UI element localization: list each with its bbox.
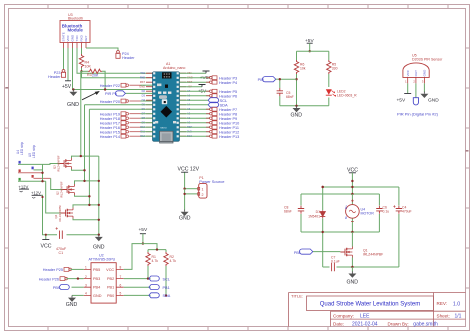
svg-text:IRLZ44NPBF: IRLZ44NPBF — [58, 205, 62, 222]
connector U4 pin label G — [19, 178, 21, 181]
svg-text:REV:: REV: — [437, 301, 448, 306]
svg-text:7: 7 — [120, 275, 122, 279]
svg-text:VCC: VCC — [41, 244, 52, 250]
connector U5 pin label B — [32, 167, 34, 170]
svg-text:Header: Header — [48, 75, 61, 79]
ground symbol motor — [348, 271, 356, 278]
diode D1 — [320, 210, 325, 218]
wire PB0 to SDA flag — [124, 294, 151, 296]
svg-text:PB0: PB0 — [107, 294, 114, 298]
wire U4 row R — [18, 172, 43, 174]
svg-text:GND: GND — [93, 294, 102, 298]
wire to P1 pin1 — [185, 188, 198, 190]
svg-text:M-: M- — [344, 216, 348, 219]
wire PB1 to Q1 gate — [313, 251, 340, 253]
svg-text:M+: M+ — [344, 205, 348, 209]
net flag SCL — [149, 276, 159, 281]
svg-text:R3: R3 — [87, 73, 92, 77]
junction R4/R3 — [80, 70, 82, 72]
net flag PB1 motor — [299, 249, 312, 254]
Q1 drain/source leads — [351, 258, 353, 268]
svg-text:Header P15: Header P15 — [100, 131, 120, 135]
wire U5 row B — [34, 169, 43, 171]
wire header P22 — [129, 84, 140, 86]
svg-text:Header P18: Header P18 — [100, 117, 120, 121]
header P25 — [64, 268, 71, 272]
header P11 — [180, 126, 210, 128]
svg-text:Company:: Company: — [333, 314, 354, 319]
svg-text:68nF: 68nF — [286, 95, 294, 99]
wire arduino D5 to Q2 column — [85, 105, 153, 181]
svg-text:IRLZ44NPBF: IRLZ44NPBF — [56, 155, 60, 172]
header P20 — [121, 99, 128, 103]
VCC 12V flag bar — [184, 172, 186, 189]
svg-text:PIR Pin (Digital Pin #2): PIR Pin (Digital Pin #2) — [397, 112, 439, 117]
svg-text:nano: nano — [160, 126, 167, 130]
wire PIR flag to arduino — [125, 92, 152, 94]
svg-text:GND: GND — [93, 245, 105, 251]
svg-text:4.7k: 4.7k — [152, 259, 159, 263]
wire arduino D6 to Q4 column — [89, 109, 152, 205]
header P13 — [180, 135, 210, 137]
wire motor top rail — [301, 187, 399, 194]
connector P1 body — [199, 183, 207, 198]
svg-text:Header P7: Header P7 — [219, 108, 237, 112]
svg-text:LED strip: LED strip — [20, 142, 24, 155]
svg-text:PB1: PB1 — [107, 286, 114, 290]
header P6 — [180, 95, 210, 97]
wire left branch — [296, 51, 298, 106]
svg-text:VCC: VCC — [406, 69, 410, 76]
svg-text:PB1: PB1 — [294, 251, 301, 255]
wire KEY pin to P24 header — [86, 48, 118, 51]
transistor Q4 — [61, 208, 73, 219]
VCC power flag — [45, 235, 47, 240]
svg-text:D203S PIR Sensor: D203S PIR Sensor — [412, 57, 443, 61]
U2 pin stubs right — [116, 269, 124, 295]
svg-text:2021-02-04: 2021-02-04 — [352, 322, 378, 328]
svg-text:TXD: TXD — [75, 35, 79, 42]
wire U4 row B — [18, 163, 43, 165]
PIR pin stubs — [408, 77, 425, 83]
svg-text:Date:: Date: — [333, 322, 344, 327]
header P7 — [180, 108, 210, 110]
svg-text:GND: GND — [291, 113, 303, 119]
junction rail/bus — [98, 234, 100, 236]
junction R3 drop on rail — [104, 88, 106, 90]
wire PB1 to flag — [124, 286, 151, 288]
header P10 — [180, 122, 210, 124]
svg-text:+12V: +12V — [18, 184, 28, 189]
wire right branch — [328, 51, 330, 106]
svg-text:IRLZ44NPBF: IRLZ44NPBF — [59, 181, 63, 198]
svg-text:Header P14: Header P14 — [100, 135, 120, 139]
wire R2 bottom to SDA row — [165, 266, 167, 295]
resistor R5 — [327, 60, 331, 74]
svg-text:Header P16: Header P16 — [100, 126, 120, 130]
LED2 — [326, 89, 332, 95]
wire +5V to VCC pin of U2 — [124, 244, 143, 270]
svg-text:6: 6 — [120, 283, 122, 287]
capacitor C1 (series on rail) — [60, 231, 63, 239]
arduino pin stubs left — [146, 73, 153, 136]
svg-text:Header P13: Header P13 — [219, 135, 239, 139]
svg-text:Header P8: Header P8 — [219, 113, 237, 117]
svg-text:Header P20: Header P20 — [100, 100, 120, 104]
wire to Q2 gate — [51, 178, 63, 189]
net flag SDA — [149, 293, 159, 298]
svg-text:Header P10: Header P10 — [219, 122, 239, 126]
junction Q2 row — [83, 180, 85, 182]
wire GND pin down to gnd rail — [73, 48, 153, 90]
svg-text:3: 3 — [85, 283, 87, 287]
svg-text:Drawn By:: Drawn By: — [388, 321, 409, 326]
transistor Q1 — [340, 247, 352, 258]
wire RXD pin to R4 — [81, 48, 83, 54]
svg-text:VCC: VCC — [106, 268, 114, 272]
header P26 — [60, 277, 67, 281]
header P12 — [180, 131, 210, 133]
PIR sensor body — [403, 63, 429, 77]
svg-text:Header P3: Header P3 — [219, 77, 237, 81]
svg-text:Header P26: Header P26 — [39, 277, 59, 281]
svg-text:GND: GND — [347, 280, 359, 286]
svg-text:2: 2 — [202, 193, 204, 197]
svg-text:IRLZ44NPBF: IRLZ44NPBF — [363, 253, 383, 257]
wire PIR gnd down — [423, 83, 425, 91]
svg-text:1.0: 1.0 — [453, 301, 460, 307]
header P9 — [180, 117, 210, 119]
wire PIR node left — [280, 79, 297, 88]
svg-text:GND: GND — [428, 98, 439, 104]
svg-text:RXD: RXD — [80, 34, 84, 41]
svg-text:PB5: PB5 — [93, 268, 100, 272]
arduino bottom caps — [155, 121, 158, 123]
svg-text:SDA: SDA — [163, 294, 171, 298]
arduino small parts — [157, 84, 161, 87]
svg-text:1: 1 — [202, 188, 204, 192]
arduino USB connector — [160, 131, 173, 143]
svg-text:10k: 10k — [300, 66, 306, 70]
resistor R3 — [88, 69, 102, 73]
svg-text:LED strip: LED strip — [32, 145, 36, 158]
wire R4 to junction — [81, 68, 83, 71]
svg-text:Header: Header — [122, 56, 135, 60]
ground symbol (rail) — [95, 235, 103, 242]
wire Q2 drain row — [75, 181, 99, 184]
title block — [289, 293, 466, 327]
wire U4 row G — [18, 180, 46, 182]
header P19 — [129, 113, 140, 115]
arduino pad column left — [153, 72, 179, 137]
wire TXD pin to arduino RX row — [77, 48, 153, 73]
svg-text:PB2: PB2 — [107, 277, 114, 281]
wire to Q4 gate — [46, 181, 61, 213]
arduino reset button — [162, 99, 167, 104]
svg-text:4: 4 — [85, 292, 87, 296]
capacitor C5 — [277, 88, 283, 96]
resistor R1 — [146, 252, 150, 266]
wire Q4 drain row — [73, 205, 99, 208]
svg-text:Header P12: Header P12 — [219, 131, 239, 135]
frame zone mark right-mid — [466, 150, 469, 152]
svg-text:D2: D2 — [142, 89, 146, 93]
net flag PB1 — [149, 285, 159, 290]
svg-text:PB1: PB1 — [163, 286, 170, 290]
wire R4 node down to Q3 drain row — [80, 71, 82, 156]
svg-text:Header P17: Header P17 — [100, 122, 120, 126]
wire header P20 row — [129, 100, 140, 102]
svg-text:20K: 20K — [92, 74, 99, 78]
wire PB2 to SCL flag — [124, 278, 151, 280]
header P22 — [121, 83, 128, 87]
header P5 — [180, 90, 210, 92]
svg-text:D3: D3 — [142, 94, 146, 98]
wire motor bottom rail — [323, 266, 399, 268]
D1 branch — [322, 187, 324, 267]
junction PIR node — [295, 78, 297, 80]
wire PIR vcc down — [407, 83, 409, 93]
arduino right pin name labels — [187, 71, 193, 138]
ground symbol P1 — [181, 210, 189, 217]
svg-text:TX1: TX1 — [140, 71, 145, 75]
svg-text:2: 2 — [85, 275, 87, 279]
port flag PIR out — [413, 98, 418, 105]
svg-text:330: 330 — [332, 66, 338, 70]
wire VCC rail — [42, 195, 99, 234]
connector U4 pin label B — [19, 161, 21, 164]
arduino ISP header — [162, 72, 172, 78]
C6 branch — [378, 194, 380, 232]
wire vertical join — [42, 164, 44, 181]
C8 branch — [300, 194, 302, 232]
svg-text:STATE: STATE — [62, 32, 66, 41]
svg-text:Arduino_nano: Arduino_nano — [163, 66, 185, 70]
junction Q3 row — [80, 155, 82, 157]
svg-text:GND: GND — [71, 34, 75, 42]
svg-text:TITLE:: TITLE: — [291, 294, 303, 299]
svg-text:VCC: VCC — [66, 34, 70, 41]
frame zone ticks bottom — [48, 327, 448, 331]
+12V flag U5 — [32, 194, 42, 196]
connector U5 pin label R — [32, 175, 34, 178]
svg-text:GND: GND — [179, 216, 191, 222]
resistor R4 — [79, 54, 83, 68]
arduino pin stubs right — [180, 73, 187, 136]
net flag SDA — [180, 104, 209, 106]
svg-text:8: 8 — [120, 266, 122, 270]
U2 pin stubs left — [84, 269, 91, 295]
svg-text:VCC 12V: VCC 12V — [178, 167, 200, 173]
wire VCC pin down to +5V — [67, 48, 69, 81]
+VCC power flag — [203, 71, 210, 73]
+5V flag right — [180, 86, 203, 88]
header P24 — [116, 51, 120, 59]
svg-text:C1: C1 — [59, 251, 64, 255]
svg-text:Header P19: Header P19 — [100, 113, 120, 117]
junction Q4 row — [88, 204, 90, 206]
wire R1 bottom to SCL row — [147, 266, 149, 279]
svg-text:+5V: +5V — [139, 227, 148, 233]
wire to P1 pin2 and GND — [185, 189, 198, 210]
svg-text:RX0: RX0 — [140, 76, 146, 80]
ground symbol (bluetooth) — [69, 90, 77, 97]
svg-text:5: 5 — [120, 292, 122, 296]
svg-text:GND: GND — [66, 302, 78, 308]
svg-text:Quad Strobe Water Levitation S: Quad Strobe Water Levitation System — [320, 301, 421, 307]
resistor R2 — [164, 252, 168, 266]
connector U4 pin label R — [19, 169, 21, 172]
wire to Q3 gate — [43, 163, 60, 166]
svg-text:PB4: PB4 — [53, 286, 60, 290]
svg-text:+5V: +5V — [62, 84, 72, 90]
+12V flag U4 — [19, 188, 29, 190]
arduino mcu chip — [161, 106, 173, 118]
svg-text:Sheet:: Sheet: — [437, 314, 450, 319]
net flag PIR — [262, 77, 275, 82]
wire bottom rail — [280, 105, 329, 107]
header P4 — [180, 81, 210, 83]
net flag PIR Pu — [115, 91, 125, 96]
svg-text:470uF: 470uF — [402, 209, 412, 213]
header P8 — [180, 113, 210, 115]
svg-text:D4: D4 — [142, 98, 146, 102]
Q3 source lead — [72, 169, 85, 170]
svg-text:LED-0603_R: LED-0603_R — [337, 93, 357, 97]
header P18 — [129, 117, 140, 119]
capacitor C4 — [396, 206, 402, 214]
svg-text:GND: GND — [423, 69, 427, 77]
svg-text:RST: RST — [140, 80, 146, 84]
svg-text:SDA: SDA — [220, 103, 229, 108]
wire mid rail to Q1 — [351, 232, 353, 247]
net flag SCL — [180, 99, 209, 101]
transistor Q3 — [60, 158, 72, 169]
svg-text:Header P4: Header P4 — [219, 81, 237, 85]
junction P1 — [183, 188, 185, 190]
wire R3 to gnd rail — [102, 71, 105, 89]
net flag PB4 — [59, 285, 69, 290]
frame zone ticks right — [466, 48, 470, 288]
svg-text:Power Source: Power Source — [199, 179, 225, 184]
svg-text:+5V: +5V — [397, 98, 406, 104]
bluetooth module U3 body — [60, 21, 90, 43]
motor U4 — [346, 205, 360, 219]
svg-text:Header P9: Header P9 — [219, 117, 237, 121]
frame zone ticks left — [5, 48, 9, 288]
header P15 — [129, 131, 140, 133]
capacitor C6 — [376, 206, 382, 214]
junction on gnd rail — [72, 88, 74, 90]
U2 pin numbers — [85, 266, 122, 296]
svg-text:Bluetooth: Bluetooth — [68, 17, 83, 21]
resistor R6 — [294, 60, 298, 74]
U2 pin names — [93, 268, 114, 298]
ground symbol U2 — [68, 295, 76, 302]
svg-text:Header P5: Header P5 — [219, 90, 237, 94]
annotation arrow — [82, 92, 99, 100]
capacitor C8 — [298, 206, 304, 214]
svg-text:4.7k: 4.7k — [170, 259, 177, 263]
svg-text:Header P25: Header P25 — [43, 268, 63, 272]
wire U5 row R — [34, 177, 51, 179]
transistor Q2 — [63, 184, 75, 195]
+5V bar flag PIR — [404, 93, 411, 95]
svg-text:LEE: LEE — [360, 314, 370, 320]
header P14 — [129, 135, 140, 137]
wire U2 GND — [72, 294, 84, 296]
svg-text:Header P11: Header P11 — [219, 126, 239, 130]
Q4 source lead — [73, 219, 99, 220]
header P17 — [129, 122, 140, 124]
svg-text:10K: 10K — [85, 65, 92, 69]
motor branch — [351, 194, 353, 232]
wire source bus — [98, 156, 100, 235]
wire Q3 drain row — [72, 156, 99, 158]
svg-text:PB4: PB4 — [93, 286, 100, 290]
wire motor mid rail — [301, 231, 379, 233]
arduino left pin name labels — [139, 71, 145, 138]
+5V power flag (bluetooth) — [65, 80, 71, 82]
frame zone mark left-mid — [6, 87, 9, 89]
svg-text:OUT: OUT — [414, 70, 418, 77]
IC U2 body — [91, 263, 116, 303]
svg-text:MOTOR: MOTOR — [361, 212, 375, 216]
wire PIR out down — [415, 83, 417, 97]
svg-text:ATTINY85-20PU: ATTINY85-20PU — [89, 258, 116, 262]
svg-text:PB3: PB3 — [93, 277, 100, 281]
svg-text:SCL: SCL — [163, 277, 170, 281]
svg-text:Header P22: Header P22 — [100, 84, 120, 88]
svg-text:1: 1 — [85, 266, 87, 270]
header P3 — [180, 77, 210, 79]
svg-text:0.1uF: 0.1uF — [331, 260, 340, 264]
svg-text:68nF: 68nF — [284, 209, 292, 213]
svg-text:KEY: KEY — [84, 35, 88, 41]
svg-text:GND: GND — [67, 102, 79, 108]
svg-text:1N5401: 1N5401 — [308, 214, 320, 218]
svg-text:Module: Module — [68, 28, 84, 33]
ground symbol — [293, 106, 301, 113]
wire VIN to +VCC — [180, 72, 207, 74]
header P16 — [129, 126, 140, 128]
wire gnd stem — [351, 267, 353, 272]
Q2 source lead — [75, 195, 90, 196]
header P23 — [61, 70, 65, 78]
wire +5V to pullups — [143, 244, 166, 252]
svg-text:0.1u: 0.1u — [383, 209, 390, 213]
svg-text:1/1: 1/1 — [455, 314, 462, 320]
U3 pin stubs — [64, 43, 87, 49]
svg-text:gabe.smith: gabe.smith — [413, 321, 438, 327]
capacitor C7 (series on rail) — [332, 263, 335, 271]
wire junction down to arduino TX row — [82, 71, 153, 77]
wire STATE pin to P23 header — [63, 48, 65, 70]
svg-text:+12V: +12V — [31, 191, 41, 196]
frame zone ticks top — [48, 5, 448, 9]
C4 branch — [398, 187, 400, 267]
arduino board body — [153, 72, 180, 142]
svg-text:PIR Pu: PIR Pu — [105, 92, 117, 96]
svg-text:PIR: PIR — [258, 78, 265, 82]
wire junction to R3 — [82, 70, 89, 72]
ground symbol PIR — [420, 92, 428, 99]
wire top rail — [297, 50, 329, 52]
